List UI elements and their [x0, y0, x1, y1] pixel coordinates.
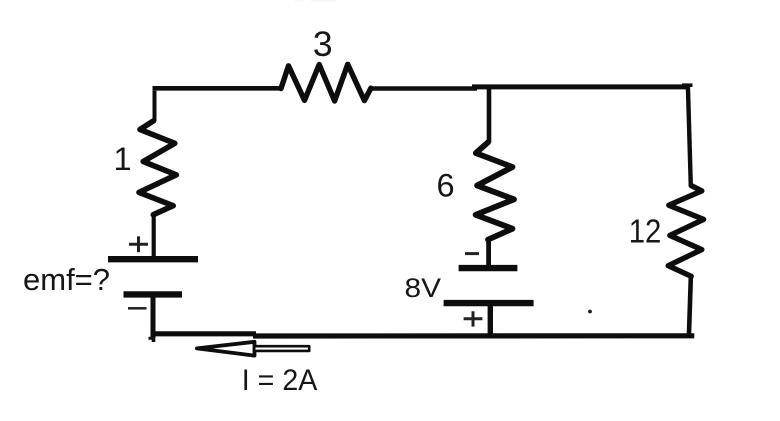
wire middle branch top lead to R6: [487, 87, 492, 143]
svg-text:1: 1: [113, 141, 131, 177]
wire top-left corner: left branch top to R3 left lead: [153, 88, 283, 121]
battery emf + sign: [129, 236, 148, 252]
resistor R3 (3 ohm) zigzag: [281, 64, 371, 101]
wire battery emf to bottom rail: [149, 295, 156, 342]
svg-text:I = 2A: I = 2A: [242, 364, 317, 397]
battery emf positive plate (long): [108, 256, 198, 262]
current direction arrow (open outline, pointing left): [197, 342, 309, 356]
battery 8V + sign: [464, 311, 483, 326]
wire top rail right of R3: [370, 87, 690, 89]
resistor R6 (6 ohm) zigzag: [476, 142, 514, 239]
stray ink dot: [588, 310, 592, 314]
faint smudge top edge right: [311, 0, 336, 2]
wire right branch top lead to R12: [688, 86, 691, 186]
svg-text:8V: 8V: [405, 273, 442, 303]
battery 8V positive plate (long): [444, 300, 534, 306]
faint smudge top edge left: [295, 0, 304, 2]
battery emf minus sign: [128, 307, 147, 310]
battery 8V negative plate (short): [459, 265, 518, 271]
battery emf negative plate (short): [124, 291, 183, 297]
resistor R12 (12 ohm) zigzag: [668, 186, 703, 277]
wire R6 bottom lead to battery 8V: [486, 239, 491, 267]
svg-text:emf=?: emf=?: [23, 262, 110, 297]
svg-text:6: 6: [436, 167, 454, 203]
wire R12 bottom lead to bottom rail: [689, 275, 691, 336]
svg-text:3: 3: [313, 24, 333, 64]
wire R1 bottom lead to battery emf: [152, 213, 156, 257]
wire battery 8V to bottom rail: [488, 304, 493, 339]
resistor R1 (1 ohm) zigzag: [139, 121, 176, 215]
wire bottom rail: [152, 334, 695, 336]
top-right corner bump: [682, 83, 693, 87]
battery 8V minus sign: [465, 252, 479, 255]
svg-text:12: 12: [629, 213, 662, 250]
